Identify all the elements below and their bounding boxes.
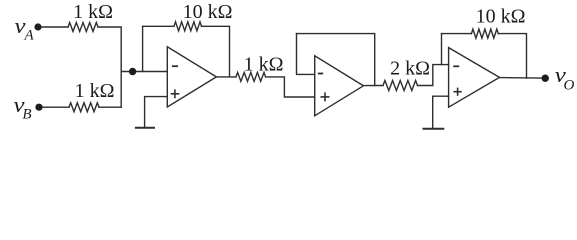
ground G1 bar	[136, 127, 154, 129]
op-amp U2 triangle	[315, 56, 364, 116]
wire R1 to corner down to vB branch	[98, 27, 121, 107]
svg-text:1 kΩ: 1 kΩ	[75, 80, 115, 102]
wire U1 feedback top left segment	[143, 25, 174, 27]
wire U3 noninverting input to ground	[433, 96, 449, 129]
op-amp U3 triangle	[449, 48, 500, 108]
wire summing node to op-amp U1 inverting input	[121, 71, 167, 73]
svg-text:O: O	[564, 78, 575, 94]
wire U3 feedback top right segment and right vertical to output	[498, 34, 526, 79]
op-amp U2 plus sign	[321, 93, 328, 100]
wire U1 noninverting input to ground	[145, 97, 168, 128]
wire R4 to op-amp U3 inverting input with jog up	[418, 65, 449, 86]
resistor R4 2 kOhm zigzag	[383, 81, 418, 91]
wire vB to R2	[43, 106, 70, 108]
op-amp U2 minus sign	[319, 73, 323, 75]
op-amp U1 triangle	[167, 47, 216, 107]
ground G3 bar	[424, 128, 444, 130]
resistor Rf1 10 kOhm zigzag	[174, 22, 202, 31]
wire U2 output	[363, 85, 383, 87]
wire U3 feedback top left segment	[442, 33, 472, 35]
wire U2 inverting input from feedback	[297, 34, 315, 75]
svg-text:1 kΩ: 1 kΩ	[244, 54, 284, 76]
junction dot summing node	[129, 68, 136, 75]
wire U2 feedback top and right vertical to output	[297, 34, 375, 86]
wire R3 to op-amp U2 noninverting input with jog down	[266, 77, 315, 97]
node vO terminal dot	[542, 75, 549, 82]
op-amp U3 minus sign	[454, 65, 458, 67]
op-amp U3 plus sign	[454, 88, 461, 95]
wire vA to R1	[42, 26, 69, 28]
svg-text:B: B	[22, 106, 31, 122]
svg-text:10 kΩ: 10 kΩ	[476, 6, 526, 28]
wire U3 feedback left vertical	[441, 34, 443, 65]
resistor R3 1 kOhm zigzag	[236, 72, 266, 81]
svg-text:2 kΩ: 2 kΩ	[390, 57, 430, 79]
svg-text:A: A	[24, 28, 35, 44]
svg-text:10 kΩ: 10 kΩ	[183, 1, 233, 23]
node vA terminal dot	[34, 23, 41, 30]
wire U1 feedback left vertical	[142, 26, 144, 71]
wire U3 output to vO	[500, 77, 542, 80]
op-amp U1 plus sign	[172, 90, 179, 97]
op-amp U1 minus sign	[173, 65, 177, 67]
wire R2 to corner	[99, 106, 121, 108]
wire U1 output	[216, 76, 236, 78]
resistor R2 1 kOhm zigzag	[69, 103, 99, 112]
resistor Rf3 10 kOhm zigzag	[471, 29, 498, 38]
node vB terminal dot	[35, 104, 42, 111]
svg-text:1 kΩ: 1 kΩ	[73, 1, 113, 23]
wire U1 feedback top right segment and right vertical to output	[202, 26, 230, 77]
resistor R1 1 kOhm zigzag	[68, 23, 98, 32]
